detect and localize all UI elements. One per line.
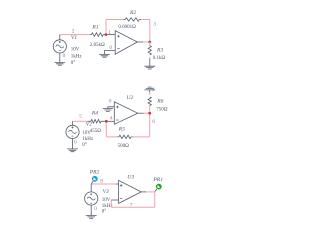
svg-text:R3: R3 [156,48,163,54]
wire feedback up [105,20,107,35]
svg-text:2.85kΩ: 2.85kΩ [90,43,105,48]
wire to R2 left [106,19,124,21]
wire R5 to output column [133,115,150,137]
junction node6 dot [148,112,151,115]
resistor R1 [90,33,105,37]
ground G3 [86,205,97,218]
svg-text:0°: 0° [82,143,87,148]
svg-text:10V: 10V [102,198,111,203]
wire junction to U2 minus [108,120,115,122]
junction node4 dot [105,120,108,123]
ground G2 [67,139,78,152]
wire R2 right down to output [141,20,150,41]
svg-text:455Ω: 455Ω [90,129,102,134]
svg-text:PR2: PR2 [89,169,100,175]
svg-text:R2: R2 [129,10,136,16]
svg-text:0: 0 [109,99,112,105]
op-amp U2 [114,102,137,125]
junction node3 dot [148,41,151,44]
resistor R5 [117,135,133,138]
svg-text:5: 5 [79,113,82,119]
resistor R4 [88,120,105,124]
wire U3 output [141,191,146,193]
op-amp U1 [115,31,137,55]
ground G4 at U1 minus input [99,50,115,57]
ground G7 under R3 [144,66,155,69]
svg-text:R5: R5 [118,127,125,133]
resistor R6 [148,97,151,106]
CIRCUIT3 [85,169,164,218]
op-amp U3 [119,180,142,203]
svg-text:V3: V3 [103,189,109,195]
source V1 [53,35,66,53]
svg-text:R4: R4 [91,111,98,117]
svg-text:0: 0 [152,87,155,93]
wire stub to U3 minus [111,199,118,201]
svg-text:0: 0 [74,139,77,145]
svg-text:U2: U2 [127,95,134,101]
svg-text:7: 7 [130,202,133,208]
ground G1 [55,53,66,65]
svg-text:V2: V2 [86,122,92,128]
wire feedback loop net7 [111,192,154,207]
svg-text:U3: U3 [127,174,134,180]
svg-text:0°: 0° [71,61,76,66]
svg-text:4: 4 [110,116,113,122]
svg-text:1kHz: 1kHz [71,54,83,59]
svg-text:8: 8 [100,179,103,185]
svg-text:0: 0 [63,53,66,59]
wire to R3 [149,42,151,46]
resistor R2 [124,18,142,21]
svg-text:750Ω: 750Ω [156,107,168,112]
svg-text:10V: 10V [71,47,80,52]
svg-text:0.6001Ω: 0.6001Ω [118,25,136,30]
svg-text:6: 6 [152,119,155,125]
wire U2 output [138,112,144,114]
svg-text:1kHz: 1kHz [82,137,94,142]
wire R6 top [149,92,151,95]
ground G6 above R6 inverted [144,87,155,92]
wire op-amp output [137,41,143,43]
wire feedback down [106,121,117,137]
junction node1 dot [105,33,108,36]
wire R3 to ground [149,57,151,59]
svg-text:1: 1 [108,30,111,36]
ground G5 at U2 plus input [103,107,115,112]
probe PR2 [91,176,97,184]
svg-text:3: 3 [153,21,156,27]
svg-text:0: 0 [109,45,112,51]
svg-text:PR1: PR1 [152,177,163,183]
source V3 [85,184,98,205]
source V2 [66,121,79,138]
wire net8 V3 to U3 plus [91,183,116,185]
CIRCUIT2 [66,87,168,152]
wire output up to R6 [149,106,151,113]
resistor R3 [148,46,151,67]
svg-text:V1: V1 [71,35,77,41]
svg-text:0: 0 [94,206,97,212]
CIRCUIT1 [53,10,165,69]
wire net2 V1 to R1 [60,34,90,36]
wire net1 junction to op-amp [107,34,115,36]
svg-text:2: 2 [72,29,75,35]
probe PR1 [155,184,162,192]
wire net5 V2 to R4 [73,120,88,122]
svg-text:R6: R6 [156,98,163,104]
svg-text:R1: R1 [91,24,98,30]
svg-text:0.1kΩ: 0.1kΩ [153,56,166,61]
svg-text:0°: 0° [102,209,107,214]
svg-text:500Ω: 500Ω [118,144,130,149]
